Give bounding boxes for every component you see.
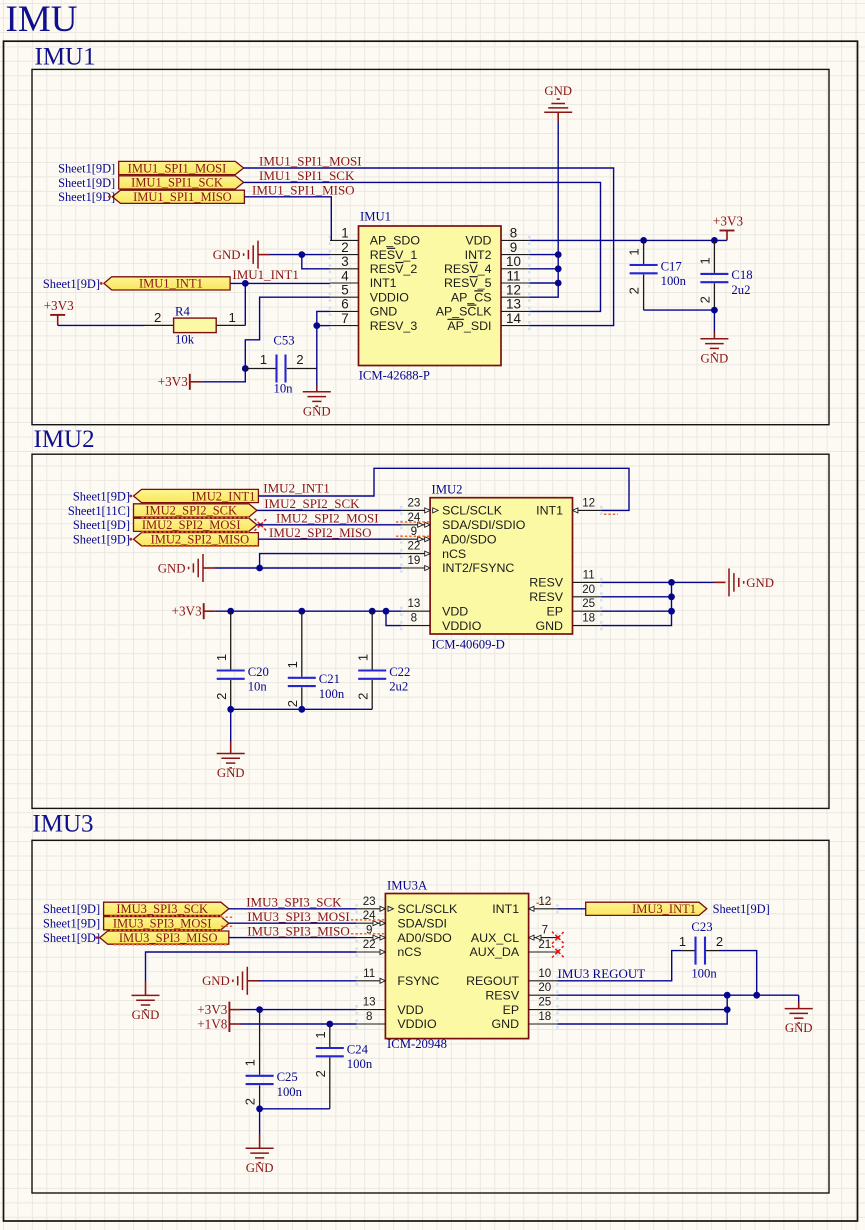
svg-text:20: 20 (582, 583, 595, 596)
svg-text:RESV: RESV (485, 988, 519, 1002)
svg-text:IMU2: IMU2 (432, 482, 463, 496)
svg-text:2: 2 (627, 287, 642, 294)
svg-text:GND: GND (492, 1017, 520, 1031)
svg-text:C23: C23 (691, 920, 712, 934)
svg-text:18: 18 (582, 612, 595, 625)
svg-text:IMU3_SPI3_MOSI: IMU3_SPI3_MOSI (113, 917, 212, 931)
svg-text:IMU3_INT1: IMU3_INT1 (632, 902, 696, 916)
svg-text:7: 7 (341, 311, 348, 326)
svg-text:IMU2_SPI2_SCK: IMU2_SPI2_SCK (264, 496, 360, 511)
svg-text:GND: GND (213, 248, 241, 262)
svg-text:+3V3: +3V3 (44, 298, 75, 313)
svg-text:INT2/FSYNC: INT2/FSYNC (442, 561, 514, 575)
svg-text:AUX_DA: AUX_DA (470, 945, 520, 959)
svg-text:1: 1 (243, 1059, 258, 1066)
svg-text:R4: R4 (175, 304, 190, 318)
svg-text:IMU3_SPI3_MISO: IMU3_SPI3_MISO (247, 923, 350, 938)
svg-text:IMU2_INT1: IMU2_INT1 (263, 480, 329, 495)
svg-text:SDA/SDI: SDA/SDI (397, 916, 447, 930)
svg-text:100n: 100n (661, 274, 687, 288)
svg-text:GND: GND (217, 766, 245, 780)
svg-text:10n: 10n (273, 382, 293, 396)
svg-text:IMU1_SPI1_MOSI: IMU1_SPI1_MOSI (128, 161, 227, 175)
svg-text:GND: GND (303, 404, 331, 418)
svg-text:INT1: INT1 (370, 276, 397, 290)
svg-text:AP_SDO: AP_SDO (370, 234, 421, 248)
svg-text:11: 11 (583, 568, 595, 581)
svg-text:Sheet1[9D]: Sheet1[9D] (58, 161, 115, 175)
svg-text:2: 2 (243, 1098, 258, 1105)
svg-text:2u2: 2u2 (389, 680, 408, 694)
svg-text:13: 13 (407, 597, 420, 610)
svg-text:5: 5 (341, 283, 348, 298)
svg-text:GND: GND (370, 305, 398, 319)
svg-text:1: 1 (313, 1031, 328, 1038)
svg-text:Sheet1[11C]: Sheet1[11C] (68, 504, 130, 518)
svg-text:2: 2 (154, 310, 161, 325)
svg-text:+3V3: +3V3 (197, 1002, 228, 1017)
svg-text:AD0/SDO: AD0/SDO (397, 931, 452, 945)
svg-text:+1V8: +1V8 (197, 1016, 228, 1031)
svg-text:GND: GND (544, 84, 572, 98)
svg-text:IMU2_INT1: IMU2_INT1 (192, 489, 256, 503)
svg-text:10n: 10n (248, 680, 268, 694)
svg-text:IMU1: IMU1 (360, 210, 391, 224)
svg-text:12: 12 (538, 895, 551, 908)
svg-text:AUX_CL: AUX_CL (471, 931, 519, 945)
svg-text:VDDIO: VDDIO (397, 1017, 437, 1031)
svg-text:IMU1_SPI1_MOSI: IMU1_SPI1_MOSI (259, 154, 362, 169)
svg-text:19: 19 (407, 554, 420, 567)
svg-text:1: 1 (355, 654, 370, 661)
svg-text:4: 4 (341, 268, 349, 283)
svg-text:VDD: VDD (442, 604, 468, 618)
svg-text:2: 2 (214, 693, 229, 700)
svg-text:23: 23 (407, 496, 420, 509)
svg-text:AD0/SDO: AD0/SDO (442, 532, 497, 546)
svg-text:Sheet1[9D]: Sheet1[9D] (43, 277, 100, 291)
svg-text:1: 1 (214, 654, 229, 661)
svg-text:IMU2_SPI2_MOSI: IMU2_SPI2_MOSI (276, 511, 379, 526)
svg-text:SCL/SCLK: SCL/SCLK (442, 504, 503, 518)
svg-text:18: 18 (538, 1010, 551, 1023)
svg-text:IMU: IMU (6, 0, 78, 40)
svg-text:2: 2 (698, 296, 713, 303)
svg-text:AP_SDI: AP_SDI (447, 319, 491, 333)
svg-text:8: 8 (366, 1010, 372, 1023)
svg-text:11: 11 (507, 268, 521, 283)
svg-text:C25: C25 (277, 1070, 298, 1084)
svg-text:10k: 10k (175, 333, 195, 347)
svg-text:IMU1_SPI1_SCK: IMU1_SPI1_SCK (131, 176, 223, 190)
svg-text:6: 6 (341, 297, 348, 312)
svg-text:GND: GND (785, 1021, 813, 1035)
svg-text:RESV_3: RESV_3 (370, 319, 418, 333)
svg-text:INT2: INT2 (465, 248, 492, 262)
svg-text:INT1: INT1 (492, 902, 519, 916)
svg-text:8: 8 (510, 226, 517, 241)
svg-text:IMU1_INT1: IMU1_INT1 (232, 267, 298, 282)
svg-text:1: 1 (698, 257, 713, 264)
svg-text:RESV: RESV (529, 590, 563, 604)
svg-text:GND: GND (701, 351, 729, 365)
svg-text:2: 2 (285, 700, 300, 707)
svg-text:+3V3: +3V3 (172, 604, 203, 619)
svg-text:AP_CS: AP_CS (451, 290, 492, 304)
svg-text:Sheet1[9D]: Sheet1[9D] (713, 902, 770, 916)
svg-text:13: 13 (363, 996, 376, 1009)
svg-text:ICM-40609-D: ICM-40609-D (432, 637, 505, 651)
svg-text:Sheet1[9D]: Sheet1[9D] (73, 518, 130, 532)
svg-text:1: 1 (260, 352, 267, 367)
svg-text:1: 1 (627, 248, 642, 255)
svg-text:C22: C22 (389, 665, 410, 679)
svg-text:C53: C53 (273, 334, 294, 348)
svg-text:20: 20 (538, 981, 551, 994)
svg-text:IMU3_SPI3_MOSI: IMU3_SPI3_MOSI (247, 909, 350, 924)
svg-text:RESV: RESV (529, 576, 563, 590)
svg-text:2: 2 (341, 240, 348, 255)
svg-text:Sheet1[9D]: Sheet1[9D] (73, 489, 130, 503)
svg-text:VDD: VDD (465, 234, 491, 248)
svg-text:AP_SCLK: AP_SCLK (436, 305, 493, 319)
svg-text:IMU2_SPI2_MISO: IMU2_SPI2_MISO (151, 533, 250, 547)
svg-text:REGOUT: REGOUT (466, 974, 519, 988)
svg-text:IMU1_INT1: IMU1_INT1 (139, 277, 203, 291)
svg-text:12: 12 (582, 496, 595, 509)
svg-text:12: 12 (506, 283, 521, 298)
svg-text:2: 2 (716, 934, 723, 949)
svg-text:100n: 100n (319, 687, 345, 701)
svg-text:IMU3_SPI3_SCK: IMU3_SPI3_SCK (116, 902, 208, 916)
svg-text:2: 2 (355, 693, 370, 700)
svg-text:C21: C21 (319, 672, 340, 686)
svg-text:1: 1 (679, 934, 686, 949)
svg-text:nCS: nCS (442, 547, 466, 561)
svg-text:Sheet1[9D]: Sheet1[9D] (43, 902, 100, 916)
svg-text:11: 11 (363, 967, 375, 980)
svg-text:IMU3 REGOUT: IMU3 REGOUT (558, 966, 646, 981)
svg-text:ICM-42688-P: ICM-42688-P (359, 368, 430, 382)
svg-text:+3V3: +3V3 (713, 214, 744, 229)
svg-text:VDD: VDD (397, 1003, 423, 1017)
svg-text:SDA/SDI/SDIO: SDA/SDI/SDIO (442, 518, 526, 532)
svg-text:SCL/SCLK: SCL/SCLK (397, 902, 458, 916)
svg-text:IMU1_SPI1_SCK: IMU1_SPI1_SCK (259, 168, 355, 183)
svg-text:2: 2 (313, 1070, 328, 1077)
svg-text:Sheet1[9D]: Sheet1[9D] (58, 176, 115, 190)
svg-text:RESV_5: RESV_5 (444, 276, 492, 290)
svg-text:1: 1 (285, 661, 300, 668)
svg-text:IMU3_SPI3_SCK: IMU3_SPI3_SCK (246, 895, 342, 910)
svg-text:VDDIO: VDDIO (370, 290, 410, 304)
svg-text:2u2: 2u2 (731, 283, 750, 297)
svg-text:25: 25 (538, 996, 551, 1009)
svg-text:Sheet1[9D]: Sheet1[9D] (58, 190, 115, 204)
svg-text:23: 23 (363, 895, 376, 908)
svg-text:C18: C18 (731, 268, 752, 282)
svg-text:INT1: INT1 (536, 504, 563, 518)
svg-text:IMU2_SPI2_SCK: IMU2_SPI2_SCK (145, 504, 237, 518)
svg-text:8: 8 (411, 612, 417, 625)
svg-text:GND: GND (202, 974, 230, 988)
svg-text:VDDIO: VDDIO (442, 619, 482, 633)
svg-text:1: 1 (229, 310, 236, 325)
svg-text:IMU1: IMU1 (35, 44, 96, 71)
svg-text:nCS: nCS (397, 945, 421, 959)
svg-text:7: 7 (542, 924, 548, 937)
svg-text:GND: GND (132, 1008, 160, 1022)
svg-text:9: 9 (366, 924, 372, 937)
svg-text:RESV_2: RESV_2 (370, 262, 418, 276)
svg-text:RESV_1: RESV_1 (370, 248, 418, 262)
svg-text:RESV_4: RESV_4 (444, 262, 492, 276)
svg-text:+3V3: +3V3 (158, 374, 189, 389)
svg-text:IMU3_SPI3_MISO: IMU3_SPI3_MISO (119, 931, 218, 945)
svg-text:IMU3: IMU3 (32, 811, 93, 838)
svg-text:14: 14 (506, 311, 521, 326)
svg-text:10: 10 (506, 254, 521, 269)
svg-text:IMU2: IMU2 (34, 426, 95, 453)
svg-text:GND: GND (246, 1161, 274, 1175)
svg-text:100n: 100n (347, 1057, 373, 1071)
svg-text:13: 13 (506, 297, 521, 312)
svg-text:IMU3A: IMU3A (387, 878, 428, 892)
svg-text:Sheet1[9D]: Sheet1[9D] (43, 931, 100, 945)
svg-text:C17: C17 (661, 259, 682, 273)
svg-text:10: 10 (538, 967, 551, 980)
svg-text:Sheet1[9D]: Sheet1[9D] (43, 917, 100, 931)
svg-text:GND: GND (158, 561, 186, 575)
svg-text:FSYNC: FSYNC (397, 974, 439, 988)
svg-text:C20: C20 (248, 665, 269, 679)
svg-text:IMU2_SPI2_MISO: IMU2_SPI2_MISO (269, 525, 372, 540)
svg-text:GND: GND (535, 619, 563, 633)
svg-text:EP: EP (503, 1003, 520, 1017)
svg-text:ICM-20948: ICM-20948 (387, 1037, 447, 1051)
svg-text:3: 3 (341, 254, 348, 269)
svg-text:2: 2 (296, 352, 303, 367)
svg-text:1: 1 (341, 226, 348, 241)
svg-text:IMU2_SPI2_MOSI: IMU2_SPI2_MOSI (142, 518, 241, 532)
svg-text:Sheet1[9D]: Sheet1[9D] (73, 533, 130, 547)
svg-text:100n: 100n (277, 1085, 303, 1099)
svg-text:9: 9 (510, 240, 517, 255)
svg-text:GND: GND (746, 576, 774, 590)
svg-text:EP: EP (546, 604, 563, 618)
svg-text:IMU1_SPI1_MISO: IMU1_SPI1_MISO (252, 183, 355, 198)
svg-text:IMU1_SPI1_MISO: IMU1_SPI1_MISO (133, 190, 232, 204)
svg-text:100n: 100n (691, 967, 717, 981)
svg-text:25: 25 (582, 597, 595, 610)
svg-text:C24: C24 (347, 1042, 369, 1056)
